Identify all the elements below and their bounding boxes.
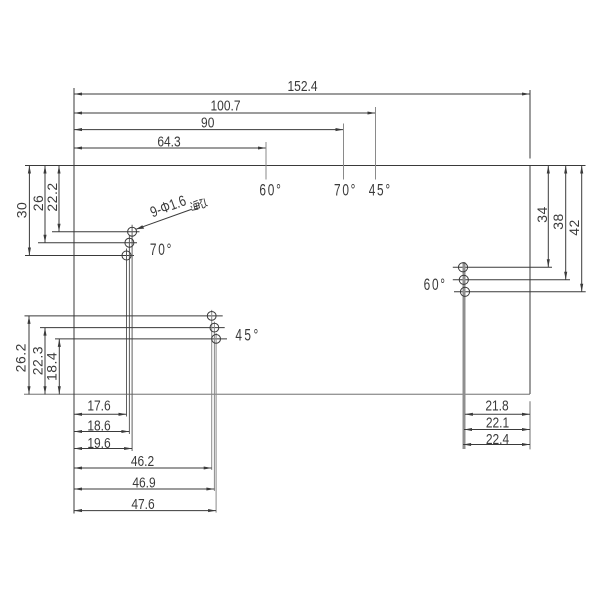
svg-text:22.2: 22.2 — [44, 182, 60, 211]
svg-text:17.6: 17.6 — [87, 397, 110, 414]
right holes merged vertical extension bar — [463, 262, 466, 449]
part outline right edge — [529, 166, 531, 395]
dimension 22.1 — [464, 429, 530, 431]
dimension 46.2 — [74, 467, 212, 469]
svg-text:18.4: 18.4 — [43, 352, 59, 381]
hole H3 horizontal extension — [25, 255, 134, 257]
hole M1 vertical extension — [211, 310, 213, 470]
svg-text:60°: 60° — [424, 276, 447, 294]
dimension 17.6 — [74, 413, 127, 415]
dimension 26.2 (bottom left) — [28, 316, 30, 394]
right edge lower extension — [529, 401, 531, 449]
dimension 100.7 — [74, 112, 376, 114]
CJK tong — [190, 200, 200, 210]
svg-text:38: 38 — [550, 213, 566, 230]
angle label 70deg left holes — [150, 241, 173, 259]
svg-text:60°: 60° — [259, 182, 282, 200]
dimension 22.3 (bottom left) — [44, 328, 46, 395]
hole M2 vertical extension — [213, 322, 215, 491]
part outline top edge with extensions — [25, 165, 586, 167]
hole H3 — [122, 251, 131, 260]
hole M3 vertical extension — [215, 333, 217, 513]
extension line 152.4 right — [529, 90, 531, 159]
hole M2 — [210, 323, 219, 332]
hole M2 horizontal extension — [40, 327, 225, 329]
angle label 45deg middle holes — [235, 327, 260, 345]
svg-text:70°: 70° — [334, 182, 357, 200]
hole H1 vertical extension — [131, 225, 133, 451]
hole H3 vertical extension — [126, 249, 128, 417]
svg-text:70°: 70° — [150, 241, 173, 259]
hole H2 horizontal extension — [38, 242, 137, 244]
dimension 22.2 (left) — [58, 166, 60, 232]
svg-text:19.6: 19.6 — [87, 435, 110, 452]
angle label 70deg top — [334, 182, 357, 200]
hole H2 vertical extension — [128, 236, 130, 434]
dimension 42 (right) — [581, 166, 583, 292]
part left edge / reference extension line — [73, 88, 75, 514]
svg-text:21.8: 21.8 — [485, 397, 508, 414]
extension line 100.7 / 45deg — [375, 107, 377, 180]
dimension 64.3 — [74, 147, 266, 149]
svg-text:100.7: 100.7 — [210, 97, 240, 114]
svg-text:22.4: 22.4 — [486, 431, 510, 448]
svg-text:64.3: 64.3 — [157, 133, 180, 150]
hole R1 horizontal extension — [453, 266, 552, 268]
svg-text:46.2: 46.2 — [131, 453, 154, 470]
dimension 38 (right) — [565, 166, 567, 280]
svg-text:90: 90 — [201, 114, 215, 131]
svg-text:42: 42 — [566, 219, 582, 236]
extension line 90 / 70deg — [343, 124, 345, 180]
svg-text:22.1: 22.1 — [486, 414, 509, 431]
svg-text:30: 30 — [14, 202, 30, 219]
svg-text:45°: 45° — [369, 182, 392, 200]
dimension 22.4 — [463, 444, 530, 446]
dimension 152.4 — [74, 93, 530, 95]
dimension 47.6 — [74, 510, 216, 512]
hole R3 — [460, 287, 469, 296]
leader line 9-phi1.6 — [136, 210, 191, 230]
hole H1 — [128, 227, 137, 236]
hole M3 — [212, 335, 221, 344]
svg-text:26.2: 26.2 — [13, 343, 29, 372]
svg-text:45°: 45° — [235, 327, 260, 345]
dimension 30 (left) — [28, 166, 30, 256]
dimension 26 (left) — [44, 166, 46, 243]
svg-text:18.6: 18.6 — [87, 417, 110, 434]
dimension 90 — [74, 129, 344, 131]
angle label 60deg top — [259, 182, 282, 200]
part outline bottom edge — [24, 393, 530, 395]
hole M1 — [207, 312, 216, 321]
hole R2 horizontal extension — [453, 279, 570, 281]
angle label 60deg right holes — [424, 276, 447, 294]
leader text 9-phi1.6 through-hole — [148, 192, 188, 220]
dimension 46.9 — [74, 488, 214, 490]
dimension 19.6 — [74, 448, 132, 450]
hole H1 horizontal extension — [52, 231, 140, 233]
svg-text:47.6: 47.6 — [131, 496, 154, 513]
CJK kong — [198, 198, 208, 209]
angle label 45deg top — [369, 182, 392, 200]
svg-text:9-Φ1.6: 9-Φ1.6 — [148, 192, 188, 220]
svg-text:46.9: 46.9 — [132, 474, 155, 491]
dimension 34 (right) — [547, 166, 549, 268]
hole M3 horizontal extension — [55, 338, 227, 340]
extension line 64.3 / 60deg — [265, 142, 267, 180]
hole R1 — [458, 263, 467, 272]
hole R2 — [459, 275, 468, 284]
svg-text:34: 34 — [534, 206, 550, 223]
hole M1 horizontal extension — [25, 315, 223, 317]
svg-text:152.4: 152.4 — [287, 78, 317, 95]
dimension 18.6 — [74, 431, 129, 433]
hole H2 — [125, 238, 134, 247]
dimension 18.4 (bottom left) — [58, 339, 60, 394]
dimension 21.8 — [465, 413, 530, 415]
hole R3 horizontal extension — [454, 291, 586, 293]
